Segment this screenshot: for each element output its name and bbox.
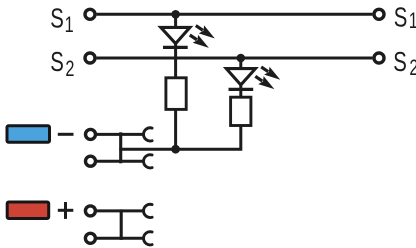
node junction on S2 rail: [237, 54, 246, 63]
node junction minus bus: [171, 145, 180, 154]
contact arc plus upper: [144, 204, 153, 217]
minus sign: [58, 133, 74, 136]
wire LED2 cathode to resistor R2: [239, 85, 242, 97]
svg-text:2: 2: [65, 56, 74, 81]
LED D1 light arrow upper: [193, 22, 217, 43]
terminal circle S1 left: [85, 9, 95, 19]
terminal circle S2 right: [374, 53, 384, 63]
resistor R1: [166, 78, 186, 110]
wire plus lower: [97, 237, 144, 240]
svg-text:S: S: [50, 47, 64, 78]
wire plus upper: [97, 209, 144, 212]
wire R2 down to minus bus: [176, 126, 241, 150]
terminal circle minus lower: [86, 156, 96, 166]
label S2 right: [393, 47, 416, 81]
label S1 left: [50, 4, 73, 38]
wire R1 to minus bus: [174, 109, 177, 149]
red marker (plus supply): [7, 202, 49, 219]
jumper bar minus: [119, 132, 122, 163]
LED D2 light arrow lower: [253, 72, 277, 93]
LED D1 cathode bar: [163, 46, 188, 49]
LED D2 cathode bar: [229, 88, 254, 91]
contact arc minus upper: [144, 128, 153, 141]
contact arc minus lower: [144, 155, 153, 168]
contact arc plus lower: [144, 232, 153, 245]
LED D1 triangle: [161, 27, 190, 43]
wire minus lower: [97, 160, 144, 163]
resistor R2: [231, 97, 251, 125]
wire S1 to LED1 anode: [174, 14, 177, 28]
label S1 right: [394, 2, 416, 33]
terminal circle S2 left: [85, 53, 95, 63]
LED D1 light arrow lower: [187, 31, 211, 52]
svg-text:S: S: [50, 4, 64, 35]
terminal circle S1 right: [374, 9, 384, 19]
terminal circle plus lower: [85, 233, 95, 243]
node junction on S1 rail: [171, 10, 180, 19]
wire LED1 cathode to resistor R1 (crosses S2 rail): [174, 44, 177, 78]
blue marker (minus supply): [7, 126, 50, 143]
wire minus upper: [97, 133, 144, 136]
label S2 left: [50, 47, 74, 82]
svg-text:S: S: [394, 2, 408, 33]
svg-text:1: 1: [65, 12, 74, 37]
LED D2 light arrow upper: [259, 63, 283, 84]
wire S2 to LED2 anode: [239, 58, 242, 70]
svg-text:2: 2: [409, 56, 416, 81]
svg-text:S: S: [393, 47, 407, 78]
LED D2 triangle: [226, 69, 255, 85]
wire S1 rail: [97, 13, 373, 16]
wire S2 rail: [97, 57, 373, 60]
terminal circle minus upper: [86, 129, 96, 139]
jumper bar plus: [120, 209, 123, 240]
minus bus wire: [119, 148, 176, 151]
terminal circle plus upper: [85, 206, 95, 216]
svg-text:1: 1: [409, 9, 416, 34]
plus sign: [58, 202, 74, 219]
